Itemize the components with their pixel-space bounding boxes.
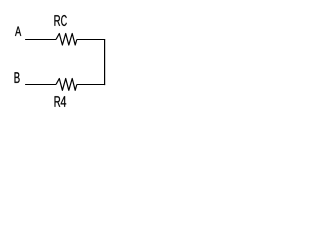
label RC (C) <box>61 15 67 26</box>
label RC (R) <box>54 15 60 26</box>
resistor R4 <box>56 79 77 91</box>
wire R4 to corner <box>77 84 105 86</box>
wire vertical right <box>104 39 106 85</box>
label R4 (4) <box>61 96 66 107</box>
wire A to RC <box>25 39 56 41</box>
node label A <box>15 27 21 36</box>
resistor RC <box>56 34 77 46</box>
wire B to R4 <box>25 84 56 86</box>
label R4 (R) <box>55 96 61 107</box>
node label B <box>15 72 20 83</box>
wire RC to corner <box>77 39 105 41</box>
